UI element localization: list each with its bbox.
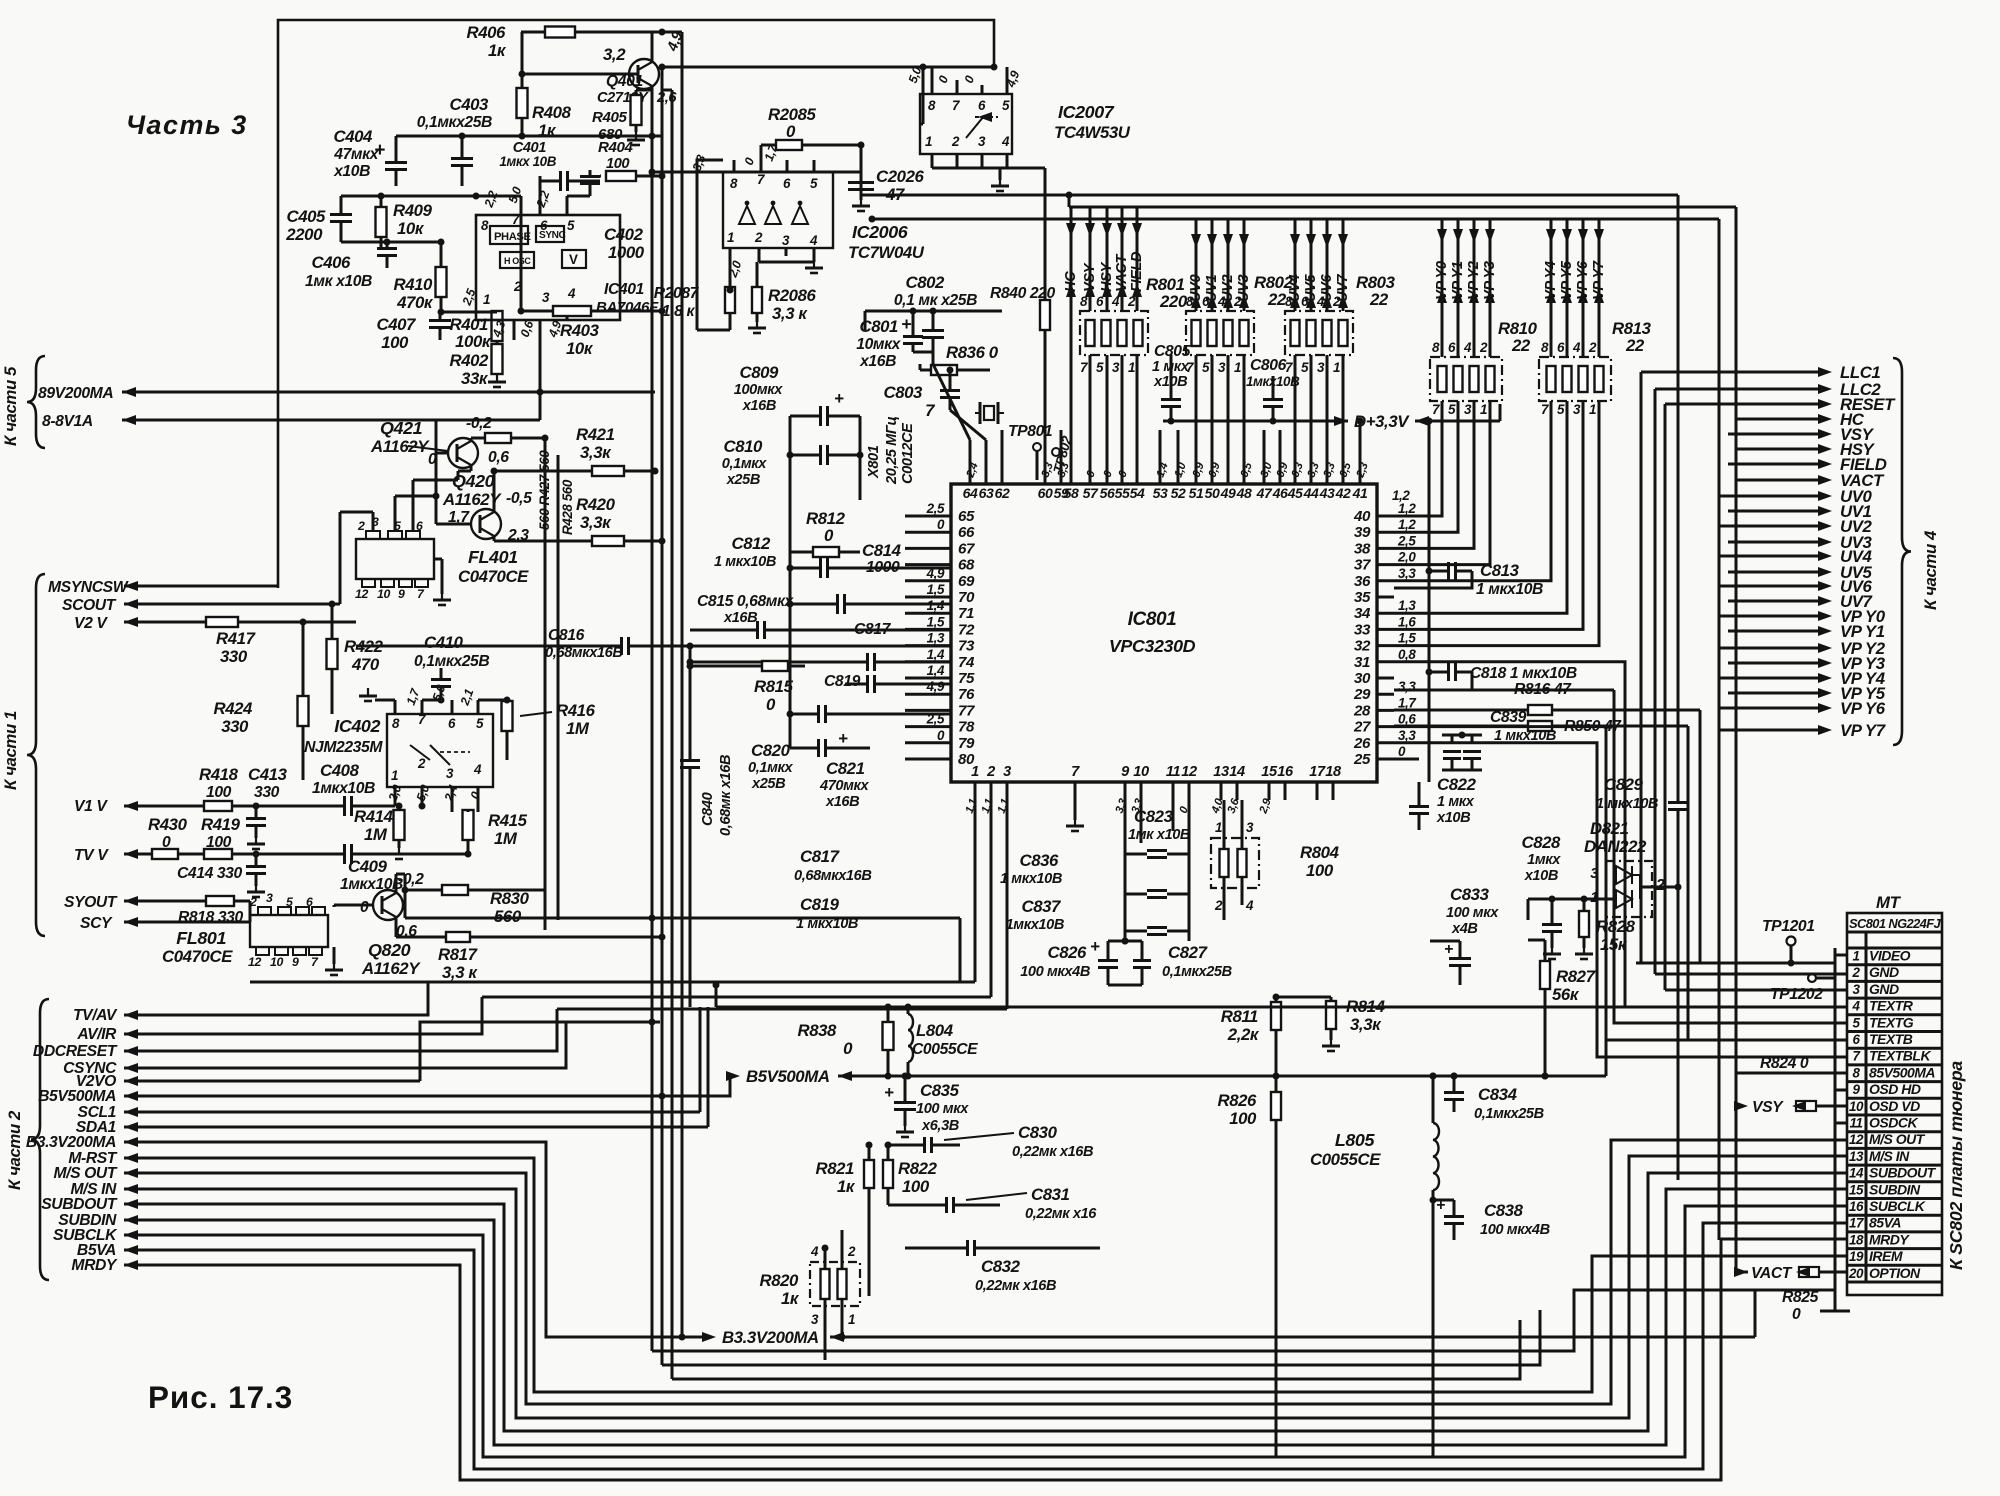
- capacitor C826: [1020, 937, 1118, 985]
- svg-text:R406: R406: [466, 23, 506, 42]
- svg-text:1: 1: [1128, 360, 1135, 375]
- svg-text:R403: R403: [560, 321, 600, 340]
- svg-text:R402: R402: [449, 351, 489, 370]
- svg-text:R826: R826: [1217, 1091, 1257, 1110]
- svg-text:470: 470: [351, 655, 380, 674]
- svg-text:SC801 NG224FJ: SC801 NG224FJ: [1849, 916, 1942, 931]
- pin 10 IC801: [1133, 764, 1149, 800]
- svg-text:15: 15: [1849, 1182, 1864, 1197]
- wire crystal column: [857, 416, 864, 500]
- pin 38 IC801: [1354, 533, 1416, 557]
- svg-text:R409: R409: [393, 201, 433, 220]
- svg-text:R421: R421: [576, 425, 615, 444]
- wire M/S OUT: [124, 1140, 1835, 1404]
- svg-text:1,2: 1,2: [1398, 501, 1416, 516]
- capacitor C821: [790, 729, 870, 810]
- wire TV/AV: [124, 982, 428, 1020]
- component label FL401 C0470CE: [458, 547, 529, 586]
- svg-text:1мкх10В: 1мкх10В: [312, 780, 375, 797]
- wire pin30 row: [1394, 690, 1835, 1023]
- svg-text:2: 2: [417, 756, 426, 771]
- svg-text:55: 55: [1115, 485, 1130, 501]
- svg-text:5: 5: [1096, 360, 1104, 375]
- svg-text:1,3: 1,3: [927, 631, 945, 646]
- resistor R409: [376, 193, 433, 249]
- component label FL801 C0470CE: [162, 928, 233, 966]
- svg-text:3: 3: [1246, 820, 1254, 835]
- svg-text:7: 7: [1432, 402, 1440, 417]
- svg-text:0,22мк х16В: 0,22мк х16В: [975, 1278, 1056, 1294]
- pin 39 IC801: [1354, 517, 1416, 541]
- svg-text:1,4: 1,4: [927, 598, 945, 613]
- svg-text:6: 6: [1852, 1032, 1860, 1047]
- svg-text:C410: C410: [424, 633, 464, 652]
- pin 12 IC801: [1181, 764, 1197, 800]
- svg-text:C827: C827: [1168, 943, 1208, 962]
- svg-text:4,9: 4,9: [926, 566, 945, 581]
- capacitor C827: [1133, 941, 1232, 985]
- pin 58 IC801: [1064, 470, 1079, 501]
- pin 34 IC801: [1354, 598, 1416, 622]
- capacitor C840: [680, 643, 734, 1008]
- svg-text:1: 1: [925, 134, 932, 149]
- resistor R811: [1221, 997, 1281, 1080]
- wire pin36 row: [1394, 587, 1430, 590]
- svg-text:10мкх: 10мкх: [856, 336, 901, 353]
- pin 59 IC801: [1054, 470, 1069, 501]
- svg-text:TEXTG: TEXTG: [1869, 1014, 1914, 1030]
- wire y1076 long: [838, 1040, 1606, 1080]
- pin 77 IC801: [905, 702, 975, 719]
- svg-text:R424: R424: [213, 699, 253, 718]
- svg-text:8: 8: [481, 218, 489, 233]
- resistor R404: [598, 139, 666, 181]
- svg-text:х6,3В: х6,3В: [921, 1118, 959, 1134]
- svg-text:VP Y7: VP Y7: [1591, 260, 1607, 300]
- wire R820 pins: [822, 1230, 846, 1360]
- figure caption Рис. 17.3: [148, 1380, 293, 1415]
- pin 46 IC801: [1272, 470, 1288, 501]
- test point TP1201: [1636, 918, 1835, 967]
- resistor R825: [1782, 1289, 1850, 1323]
- wire R813 outputs: [1394, 401, 1599, 646]
- svg-text:R828: R828: [1596, 917, 1636, 936]
- svg-text:3: 3: [1573, 402, 1581, 417]
- svg-text:35: 35: [1354, 589, 1371, 606]
- svg-text:0,1мкх25В: 0,1мкх25В: [1474, 1106, 1544, 1122]
- wire R810 outputs: [1394, 401, 1490, 565]
- svg-text:К части 1: К части 1: [1, 711, 20, 790]
- svg-text:3: 3: [1852, 982, 1860, 997]
- svg-text:1,4: 1,4: [927, 647, 945, 662]
- svg-text:1,3: 1,3: [1398, 598, 1416, 613]
- svg-text:MRDY: MRDY: [71, 1257, 118, 1274]
- wire pin7 riser: [1066, 800, 1084, 831]
- wire bus y=172: [649, 169, 862, 176]
- svg-text:50: 50: [1205, 485, 1220, 501]
- svg-text:UV6: UV6: [1319, 274, 1335, 302]
- svg-text:100: 100: [606, 156, 629, 172]
- svg-text:3,3 к: 3,3 к: [772, 304, 808, 323]
- svg-text:R821: R821: [815, 1159, 854, 1178]
- resistor R827: [1528, 940, 1596, 1080]
- svg-text:3: 3: [446, 766, 454, 781]
- svg-text:C809: C809: [739, 363, 779, 382]
- svg-text:5: 5: [286, 895, 293, 909]
- net label M-RST: [68, 1150, 117, 1167]
- wire pins 9-12 risers: [1125, 800, 1189, 843]
- svg-text:TP1201: TP1201: [1762, 918, 1815, 935]
- resistor R828: [1575, 899, 1636, 959]
- svg-text:V2 V: V2 V: [74, 615, 108, 632]
- pin 68 IC801: [905, 557, 975, 574]
- wire V2 V: [124, 617, 356, 627]
- svg-text:470к: 470к: [396, 293, 434, 312]
- svg-text:2: 2: [847, 1244, 856, 1259]
- svg-text:100: 100: [1229, 1109, 1257, 1128]
- svg-text:х16В: х16В: [742, 398, 776, 414]
- wire y997: [482, 996, 991, 999]
- net label 89V200MA: [38, 385, 113, 402]
- component label L804 C0055CE: [912, 1021, 978, 1058]
- svg-text:7: 7: [1852, 1049, 1860, 1064]
- wire MSYNCSW: [124, 581, 278, 591]
- svg-text:45: 45: [1287, 485, 1303, 501]
- svg-text:C812: C812: [731, 534, 771, 553]
- svg-text:M/S IN: M/S IN: [1869, 1148, 1910, 1164]
- wire C826 rails: [1108, 938, 1142, 986]
- wire CSYNC: [124, 1022, 566, 1073]
- svg-text:100 мкх4В: 100 мкх4В: [1480, 1222, 1550, 1238]
- svg-text:3: 3: [811, 1312, 819, 1327]
- svg-text:+: +: [884, 1083, 894, 1102]
- svg-text:IC801: IC801: [1128, 609, 1177, 630]
- resistor R405: [592, 90, 652, 143]
- net label 8-8V1A: [42, 413, 93, 430]
- component label IC2007 TC4W53U: [1054, 102, 1131, 142]
- capacitor C810: [722, 437, 860, 488]
- net label MSYNCSW: [48, 579, 129, 596]
- pin 44 IC801: [1303, 470, 1319, 501]
- pin 11 IC801: [1166, 764, 1181, 800]
- svg-text:OSD VD: OSD VD: [1869, 1098, 1920, 1114]
- svg-text:100: 100: [1306, 861, 1334, 880]
- svg-text:100: 100: [381, 333, 409, 352]
- svg-text:10к: 10к: [397, 219, 425, 238]
- resistor R419: [201, 815, 241, 859]
- pin 78 IC801: [905, 712, 975, 736]
- svg-text:47: 47: [885, 185, 905, 204]
- wire SDA1: [124, 1007, 708, 1132]
- svg-text:25: 25: [1353, 751, 1371, 768]
- capacitor C823: [1125, 807, 1190, 941]
- svg-text:C403: C403: [449, 95, 489, 114]
- net label DDCRESET: [33, 1043, 118, 1060]
- svg-text:R811: R811: [1221, 1007, 1258, 1026]
- wire bundle x652: [652, 1290, 1835, 1351]
- svg-text:UV2: UV2: [1220, 275, 1236, 302]
- svg-text:C816: C816: [548, 627, 585, 644]
- net label RESET: [1665, 395, 1896, 414]
- svg-text:4,9: 4,9: [926, 679, 945, 694]
- svg-text:IC2006: IC2006: [852, 222, 909, 242]
- wire pin26 row: [1394, 743, 1835, 1057]
- svg-text:A1162Y: A1162Y: [361, 959, 421, 978]
- svg-text:C803: C803: [883, 383, 923, 402]
- svg-text:7: 7: [757, 172, 765, 187]
- wire IC401 pins: [476, 176, 567, 420]
- svg-text:DAN222: DAN222: [1584, 837, 1647, 856]
- resistor R814: [1322, 997, 1386, 1051]
- svg-text:IC401: IC401: [604, 281, 644, 298]
- svg-text:77: 77: [958, 702, 975, 719]
- svg-text:5: 5: [567, 218, 575, 233]
- svg-text:2,5: 2,5: [926, 712, 945, 727]
- svg-text:5: 5: [1852, 1015, 1860, 1030]
- svg-text:53: 53: [1153, 485, 1168, 501]
- svg-text:C834: C834: [1478, 1085, 1518, 1104]
- svg-text:0,22мк х16В: 0,22мк х16В: [1012, 1144, 1093, 1160]
- svg-text:C404: C404: [333, 127, 373, 146]
- svg-text:НС: НС: [1063, 271, 1079, 292]
- svg-text:МТ: МТ: [1876, 893, 1902, 912]
- svg-text:R415: R415: [488, 811, 528, 830]
- net label VP Y6: [1720, 699, 1886, 718]
- wire C801 rails: [865, 308, 1002, 365]
- svg-text:VP Y4: VP Y4: [1543, 261, 1559, 300]
- pin 67 IC801: [905, 540, 975, 557]
- pin 9 IC801: [1121, 764, 1130, 800]
- svg-text:1: 1: [971, 764, 979, 780]
- svg-text:7: 7: [1285, 360, 1293, 375]
- svg-text:1М: 1М: [494, 829, 518, 848]
- svg-text:C406: C406: [311, 253, 351, 272]
- svg-text:C409: C409: [348, 857, 388, 876]
- wire x1678 down: [1677, 372, 1680, 760]
- capacitor C819 value: [796, 895, 858, 932]
- resistor R818: [178, 896, 244, 926]
- pin 31 IC801: [1354, 647, 1416, 671]
- svg-text:66: 66: [958, 524, 975, 541]
- node VP Y2: [1466, 219, 1482, 357]
- svg-text:2: 2: [1214, 898, 1223, 913]
- capacitor C402: [567, 170, 645, 262]
- svg-text:L804: L804: [916, 1021, 954, 1040]
- svg-text:х10В: х10В: [1524, 868, 1558, 884]
- svg-text:AV/IR: AV/IR: [76, 1026, 117, 1043]
- svg-text:85VA: 85VA: [1869, 1215, 1901, 1231]
- capacitor C805: [1152, 343, 1191, 425]
- net label UV7: [1728, 592, 1873, 611]
- svg-text:0,6: 0,6: [1398, 712, 1416, 727]
- resistor R403: [518, 306, 666, 358]
- svg-text:0: 0: [1792, 1306, 1801, 1323]
- svg-text:1 мкх10В: 1 мкх10В: [1476, 581, 1543, 598]
- svg-text:3: 3: [1218, 360, 1226, 375]
- svg-text:1: 1: [1589, 402, 1596, 417]
- svg-text:4: 4: [1245, 898, 1254, 913]
- svg-text:1: 1: [391, 768, 398, 783]
- svg-text:64: 64: [963, 485, 978, 501]
- net label К части 5: [1, 366, 20, 446]
- svg-text:7: 7: [1080, 360, 1088, 375]
- net label AV/IR: [76, 1026, 117, 1043]
- capacitor C410: [414, 633, 489, 700]
- svg-text:37: 37: [1354, 557, 1371, 574]
- svg-text:VP Y5: VP Y5: [1559, 260, 1575, 300]
- svg-text:3,3: 3,3: [1398, 566, 1416, 581]
- svg-text:2: 2: [986, 764, 995, 780]
- svg-text:43: 43: [1319, 485, 1335, 501]
- svg-text:44: 44: [1303, 485, 1319, 501]
- pin 2 IC801: [986, 764, 995, 800]
- svg-text:C836: C836: [1019, 851, 1059, 870]
- svg-text:-0,2: -0,2: [466, 415, 492, 432]
- svg-text:10: 10: [377, 587, 390, 601]
- pin 50 IC801: [1205, 470, 1220, 501]
- svg-text:8: 8: [928, 98, 936, 113]
- svg-text:38: 38: [1354, 540, 1371, 557]
- net label SUBDOUT: [41, 1196, 118, 1213]
- node VP Y6: [1575, 219, 1591, 357]
- capacitor C809: [734, 363, 860, 426]
- wire B5VA: [124, 1223, 1835, 1469]
- net label B5V500MA: [38, 1088, 116, 1105]
- svg-text:C402: C402: [604, 225, 644, 244]
- wire SUBDIN: [124, 1189, 1835, 1445]
- svg-text:R804: R804: [1300, 843, 1340, 862]
- resistor network R802 22: [1186, 273, 1294, 375]
- svg-text:2: 2: [1479, 340, 1488, 355]
- svg-text:R830: R830: [490, 889, 530, 908]
- svg-text:C826: C826: [1047, 943, 1087, 962]
- svg-text:C0470CE: C0470CE: [458, 567, 529, 586]
- svg-text:TEXTB: TEXTB: [1869, 1031, 1913, 1047]
- net label VP Y4: [1720, 669, 1886, 688]
- svg-text:3: 3: [1003, 764, 1011, 780]
- svg-text:VIDEO: VIDEO: [1869, 948, 1911, 964]
- resistor R824: [1737, 1055, 1835, 1073]
- svg-text:TEXTBLK: TEXTBLK: [1869, 1048, 1931, 1064]
- capacitor C405: [285, 196, 352, 244]
- svg-text:47: 47: [1256, 485, 1273, 501]
- resistor network R803 22: [1285, 273, 1396, 375]
- resistor R418: [199, 765, 239, 811]
- inductor L804: [905, 1007, 914, 1080]
- svg-text:TC7W04U: TC7W04U: [848, 243, 925, 262]
- node FIELD: [1129, 207, 1145, 311]
- pin 18 IC801: [1325, 764, 1342, 800]
- svg-text:1,6: 1,6: [1398, 614, 1416, 629]
- resistor R424: [213, 619, 308, 781]
- svg-text:4: 4: [1851, 999, 1860, 1014]
- svg-text:39: 39: [1354, 524, 1371, 541]
- svg-text:SCY: SCY: [80, 915, 113, 932]
- pin 26 IC801: [1353, 728, 1416, 752]
- svg-text:2: 2: [357, 519, 365, 533]
- wire Q401 collector row: [661, 66, 994, 69]
- filter FL401: [355, 515, 434, 601]
- capacitor C814: [790, 541, 951, 614]
- svg-text:3: 3: [1317, 360, 1325, 375]
- resistor R836: [920, 343, 999, 375]
- capacitor C819: [824, 673, 951, 693]
- net label V2VO: [76, 1073, 116, 1090]
- svg-text:+: +: [374, 140, 385, 161]
- svg-text:C822: C822: [1437, 775, 1477, 794]
- pin 32 IC801: [1354, 631, 1416, 655]
- svg-text:0: 0: [937, 728, 945, 743]
- pin 64 IC801: [963, 470, 978, 501]
- resistor R816: [1394, 681, 1700, 963]
- svg-text:2,5: 2,5: [926, 501, 945, 516]
- svg-text:9: 9: [292, 955, 299, 969]
- svg-text:R414: R414: [354, 807, 394, 826]
- svg-text:3,3к: 3,3к: [580, 513, 612, 532]
- pin 71 IC801: [905, 598, 974, 622]
- svg-text:VP Y3: VP Y3: [1482, 261, 1498, 300]
- pin 35 IC801: [1354, 589, 1394, 606]
- wire M-RST: [124, 1153, 1835, 1392]
- wire y982: [250, 981, 975, 984]
- svg-text:0: 0: [824, 526, 834, 545]
- svg-text:8: 8: [1852, 1065, 1860, 1080]
- svg-text:1 мкх10В: 1 мкх10В: [1000, 871, 1062, 887]
- transistor Q401: [522, 29, 687, 112]
- svg-text:15: 15: [1261, 764, 1278, 780]
- pin 28 IC801: [1353, 695, 1416, 719]
- svg-text:TV/AV: TV/AV: [73, 1007, 118, 1024]
- node VSY: [1082, 207, 1098, 311]
- svg-text:UV5: UV5: [1303, 274, 1319, 302]
- svg-text:VSY: VSY: [1082, 262, 1098, 292]
- svg-text:V1 V: V1 V: [74, 798, 108, 815]
- svg-text:27: 27: [1353, 719, 1371, 736]
- svg-text:5: 5: [1448, 402, 1456, 417]
- svg-text:R408: R408: [532, 103, 572, 122]
- svg-text:4: 4: [567, 286, 576, 301]
- pin 60 IC801: [1038, 470, 1053, 501]
- svg-text:+: +: [834, 389, 844, 408]
- svg-text:Q401: Q401: [606, 73, 643, 90]
- svg-text:A1162Y: A1162Y: [370, 437, 430, 456]
- resistor network R804: [1211, 820, 1340, 913]
- net label VP Y3: [1728, 654, 1886, 673]
- wire M/S IN: [124, 1156, 1835, 1418]
- net label SUBDIN: [58, 1212, 117, 1229]
- svg-text:0,6: 0,6: [488, 449, 509, 466]
- svg-text:10к: 10к: [566, 339, 594, 358]
- svg-text:1мкх 10В: 1мкх 10В: [499, 154, 556, 169]
- resistor R812: [790, 509, 860, 557]
- svg-text:12: 12: [1849, 1132, 1864, 1147]
- svg-text:1: 1: [1234, 360, 1241, 375]
- net label К части 4: [1921, 530, 1940, 610]
- svg-text:R404: R404: [598, 139, 633, 156]
- svg-text:1мк х10В: 1мк х10В: [1128, 827, 1190, 843]
- svg-text:R825: R825: [1782, 1289, 1819, 1306]
- svg-text:К части 5: К части 5: [1, 366, 20, 446]
- capacitor C835: [884, 1073, 969, 1138]
- inverter array IC2006: [723, 172, 833, 248]
- svg-text:C407: C407: [376, 315, 416, 334]
- wire pin27 row: [1394, 727, 1835, 1040]
- capacitor C830: [888, 1123, 1093, 1160]
- svg-text:3,3: 3,3: [1398, 728, 1416, 743]
- svg-text:6: 6: [978, 98, 986, 113]
- svg-text:NJM2235M: NJM2235M: [304, 739, 383, 756]
- svg-text:3: 3: [1112, 360, 1120, 375]
